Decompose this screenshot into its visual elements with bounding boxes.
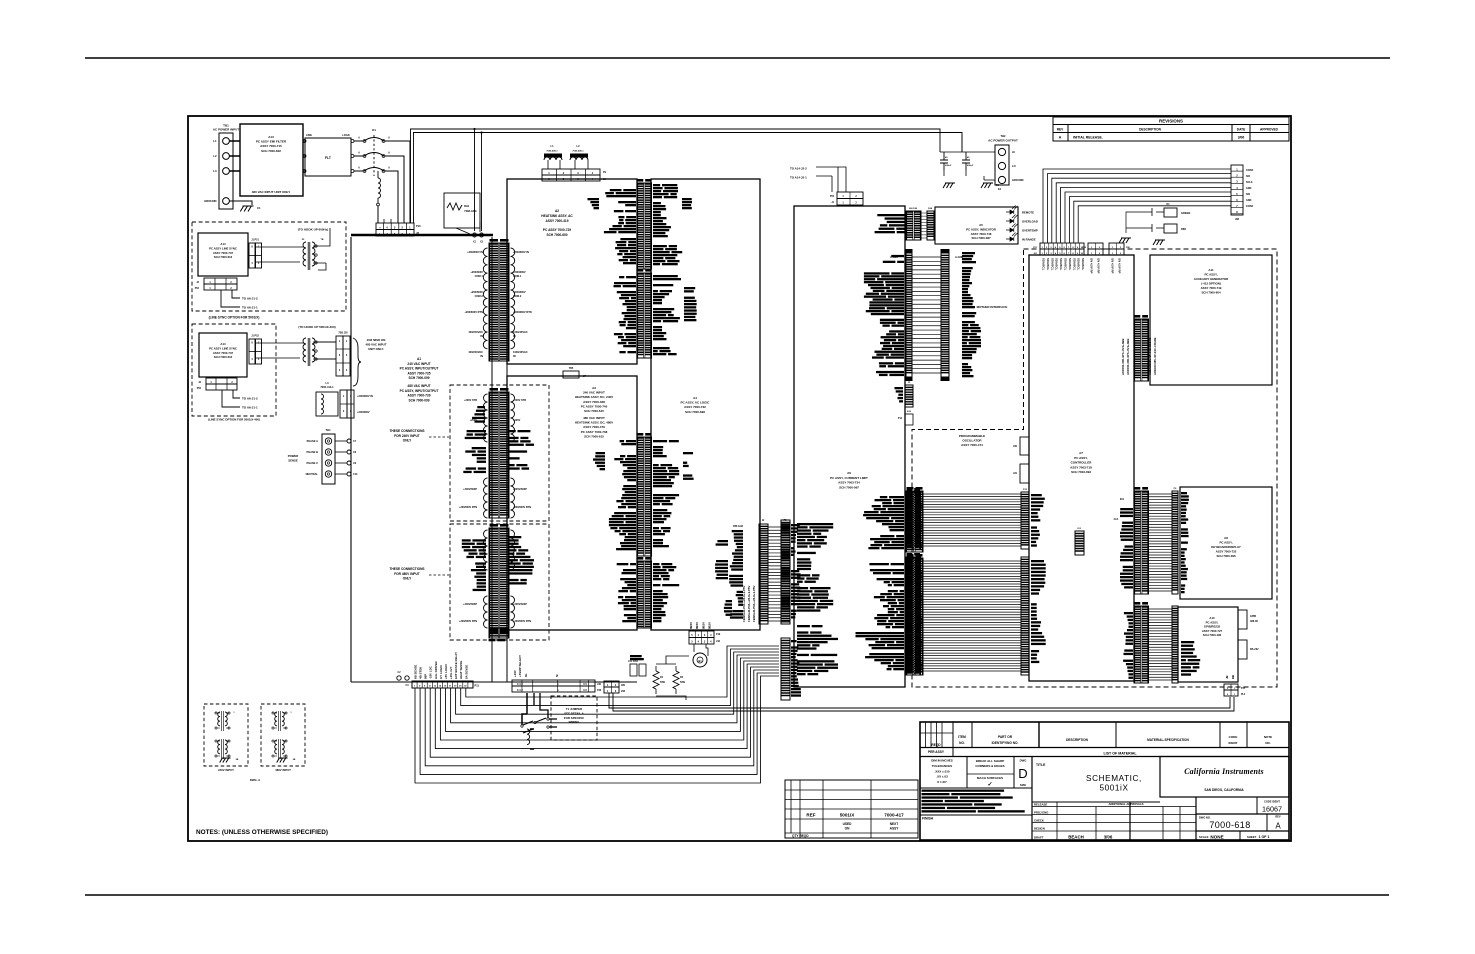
svg-text:3B: 3B — [236, 759, 239, 761]
svg-text:NEUTRAL: NEUTRAL — [306, 472, 319, 476]
A14-400 box — [199, 333, 247, 377]
svg-text:MOTHER INTERFACE: MOTHER INTERFACE — [977, 305, 1008, 309]
svg-text:TITLE: TITLE — [1036, 763, 1046, 767]
svg-text:+200/600V RTN: +200/600V RTN — [513, 506, 531, 509]
B1 fan motor — [693, 653, 707, 667]
svg-text:RL: RL — [524, 673, 528, 677]
bottom wire fan P11 to A4 edge connector — [415, 646, 779, 783]
240V blobs — [467, 430, 486, 432]
svg-text:J40: J40 — [597, 683, 602, 686]
svg-text:SDA/SCL: SDA/SCL — [1068, 258, 1072, 271]
svg-text:PC ASSY LINE SYNC: PC ASSY LINE SYNC — [209, 246, 237, 250]
A10 box — [1178, 607, 1238, 682]
svg-text:CORNERS & EDGES: CORNERS & EDGES — [975, 764, 1004, 768]
svg-text:ON: ON — [845, 827, 850, 831]
P21 connector row — [1040, 243, 1084, 249]
remote interface wire bundle — [1043, 169, 1231, 243]
long pair wires to A10 — [609, 693, 1234, 711]
svg-text:SDA/SCL: SDA/SCL — [1059, 258, 1063, 271]
svg-text:8B5V: 8B5V — [708, 622, 712, 629]
svg-text:ONLY: ONLY — [403, 439, 412, 443]
RS232 connector J20 — [1231, 165, 1243, 215]
svg-text:TB: TB — [321, 239, 324, 241]
mother interface ribbon — [912, 257, 941, 373]
A8 interface strips — [1134, 491, 1149, 594]
svg-text:NO.: NO. — [1265, 741, 1271, 745]
break corners box — [967, 757, 1014, 789]
svg-text:480 VAC INPUT: 480 VAC INPUT — [366, 343, 387, 347]
svg-text:SCALE: SCALE — [1199, 835, 1209, 839]
P24 small connector — [1109, 243, 1124, 249]
svg-text:PHASE B: PHASE B — [306, 450, 318, 454]
svg-text:+200/600V RTN: +200/600V RTN — [513, 620, 531, 623]
svg-text:NEXT: NEXT — [890, 822, 899, 826]
svg-text:+200/600V RTN: +200/600V RTN — [459, 506, 477, 509]
svg-text:SENSE: SENSE — [288, 459, 298, 463]
svg-text:(LINE SYNC OPTION FOR 5001iX-4: (LINE SYNC OPTION FOR 5001iX-400) — [208, 418, 260, 422]
detail A dashed box 480V — [261, 704, 305, 766]
svg-text:C1: C1 — [257, 206, 261, 210]
T1 switch contacts — [523, 718, 557, 733]
svg-text:SCH 7000-612: SCH 7000-612 — [214, 255, 233, 259]
svg-text:IN: IN — [513, 334, 516, 338]
svg-text:AC POWER OUTPUT: AC POWER OUTPUT — [988, 139, 1018, 143]
svg-text:RH1: RH1 — [464, 204, 470, 208]
svg-text:INITIAL RELEASE.: INITIAL RELEASE. — [1073, 136, 1103, 140]
svg-text:240V INPUT: 240V INPUT — [218, 768, 234, 772]
L3 connector — [340, 390, 347, 418]
svg-text:+200/600V: +200/600V — [470, 270, 483, 274]
A14-400 J1 connectors — [249, 339, 255, 364]
A10 bottom connector P13 — [1224, 684, 1238, 690]
A10 interface labels — [1124, 612, 1133, 614]
A7 J31 connector — [1020, 464, 1029, 483]
svg-text:SCH 7000-615: SCH 7000-615 — [584, 434, 604, 438]
svg-text:ASSY 7000-737: ASSY 7000-737 — [213, 251, 234, 255]
svg-text:DESCRIPTION: DESCRIPTION — [1066, 738, 1088, 742]
svg-text:COM-2: COM-2 — [513, 294, 522, 298]
svg-text:ON 4.5V RP: ON 4.5V RP — [1118, 258, 1122, 274]
svg-text:PC ASSY,: PC ASSY, — [1219, 541, 1232, 545]
svg-text:THESE CONNECTIONS: THESE CONNECTIONS — [389, 567, 424, 571]
TB4 power sense strip — [322, 434, 335, 484]
K1 coil L — [378, 178, 381, 198]
svg-text:0 4 2: 0 4 2 — [517, 682, 523, 686]
svg-text:600nF: 600nF — [967, 165, 974, 167]
svg-text:208: 208 — [621, 690, 626, 693]
svg-text:A1: A1 — [417, 357, 421, 361]
svg-text:ASSY 7000-737: ASSY 7000-737 — [213, 351, 234, 355]
svg-text:SCH 7003-093: SCH 7003-093 — [1071, 470, 1091, 474]
480V transformer detail — [275, 712, 277, 726]
A14 transformer T2 — [303, 242, 306, 266]
svg-text:(LINE SYNC OPTION FOR 5001iX): (LINE SYNC OPTION FOR 5001iX) — [209, 316, 260, 320]
svg-text:+200/600V: +200/600V — [357, 410, 370, 414]
top page rule — [85, 57, 1390, 59]
svg-text:8B5V: 8B5V — [689, 622, 693, 629]
svg-text:IN RANGE: IN RANGE — [1022, 238, 1036, 242]
A14 line sync dashed box 600Hz — [192, 222, 346, 311]
R2 resistor — [675, 666, 677, 694]
svg-text:SHEET: SHEET — [1247, 835, 1257, 839]
A13 to FLT wires — [303, 141, 305, 171]
A2 J1 P1 coil connector — [489, 243, 509, 361]
A4 right small labels — [717, 540, 728, 542]
dwg no box — [1196, 830, 1289, 832]
svg-text:ON 4.5V RP: ON 4.5V RP — [1097, 258, 1101, 274]
svg-text:PHASE A: PHASE A — [307, 439, 319, 443]
A6 J23 P23 connectors — [906, 491, 923, 552]
A1 right verticals — [491, 237, 493, 682]
svg-text:D88: D88 — [1181, 227, 1186, 231]
svg-text:ASSY 7000-468: ASSY 7000-468 — [583, 400, 605, 404]
svg-text:+200/600V: +200/600V — [470, 290, 483, 294]
svg-text:PL2: PL2 — [1241, 694, 1246, 696]
svg-text:+5V LOGIC: +5V LOGIC — [444, 663, 448, 679]
svg-text:+200V/600P: +200V/600P — [513, 603, 527, 606]
svg-text:SDA/SCL: SDA/SCL — [1064, 258, 1068, 271]
svg-text:7000-417: 7000-417 — [884, 813, 904, 818]
480V connections dashed box — [450, 524, 549, 640]
svg-text:P50: P50 — [830, 196, 835, 198]
svg-text:0 4 2: 0 4 2 — [517, 688, 523, 692]
svg-text:MATERIAL-SPECIFICATION: MATERIAL-SPECIFICATION — [1147, 738, 1189, 742]
P23 small connector — [1088, 243, 1103, 249]
svg-text:4B STD8: 4B STD8 — [419, 667, 423, 679]
svg-text:+200V/600P: +200V/600P — [463, 603, 477, 606]
terminal strip TB1 AC power input — [219, 133, 233, 209]
svg-text:BEACH: BEACH — [1068, 835, 1084, 840]
RH1 resistor — [444, 193, 480, 228]
svg-text:PC ASSY,: PC ASSY, — [1204, 273, 1217, 277]
A5 LEDs — [1006, 206, 1018, 215]
svg-text:A: A — [358, 137, 360, 140]
A7 J30 connector — [1020, 437, 1029, 455]
svg-text:ASSY 7000-419: ASSY 7000-419 — [546, 219, 569, 223]
svg-text:RB: RB — [1231, 675, 1235, 679]
svg-text:TO A6-J1-2: TO A6-J1-2 — [242, 297, 258, 301]
240V coil column — [489, 392, 509, 518]
option dashed region outline — [912, 249, 1277, 687]
svg-text:SDI: SDI — [1246, 193, 1250, 196]
svg-text:ASSY 7003-718: ASSY 7003-718 — [1070, 465, 1092, 469]
A7-A11 interface strips — [1134, 319, 1149, 381]
A8 interface labels — [1120, 508, 1133, 510]
svg-text:P12: P12 — [898, 418, 903, 420]
svg-text:SDA/SCL: SDA/SCL — [1042, 258, 1046, 271]
A7 left ribbon 2 — [906, 557, 921, 675]
svg-text:0 0: 0 0 — [583, 682, 587, 686]
svg-text:+200V: +200V — [513, 419, 521, 422]
svg-text:SDA/SCL: SDA/SCL — [1055, 258, 1059, 271]
svg-text:5001iX: 5001iX — [840, 813, 855, 818]
A14 box — [198, 233, 248, 276]
svg-text:3/06: 3/06 — [1238, 136, 1245, 140]
svg-text:ASSY 7000-718: ASSY 7000-718 — [971, 232, 992, 236]
svg-text:TB1: TB1 — [223, 124, 229, 128]
svg-text:CODE: CODE — [1229, 735, 1238, 739]
A6 inside bottom labels — [797, 523, 833, 525]
svg-text:HEATSINK ASSY, DC, 240V: HEATSINK ASSY, DC, 240V — [575, 395, 613, 399]
D ground syms — [1119, 238, 1131, 243]
svg-text:GROUND: GROUND — [204, 199, 216, 203]
svg-text:REMOTE: REMOTE — [1022, 211, 1034, 215]
svg-text:P52: P52 — [197, 387, 202, 390]
svg-text:FINISH: FINISH — [922, 817, 934, 821]
svg-text:KEYBOARD/DISPLAY: KEYBOARD/DISPLAY — [1211, 545, 1241, 549]
C2 C3 terminals — [397, 676, 401, 680]
svg-text:PC ASSY 7000-740: PC ASSY 7000-740 — [581, 404, 608, 408]
svg-text:ON 4.5V RP: ON 4.5V RP — [1090, 258, 1094, 274]
svg-text:A: A — [388, 167, 390, 170]
svg-text:+200/600V: +200/600V — [513, 270, 526, 274]
svg-text:L2: L2 — [213, 154, 217, 158]
ground wire and symbol C1 — [229, 201, 252, 205]
A14 J2 P52 connector — [204, 278, 237, 284]
A11 aux generator box — [1150, 255, 1272, 385]
svg-text:SCH 7000-087: SCH 7000-087 — [971, 236, 991, 240]
svg-text:SCH 7000-612: SCH 7000-612 — [214, 355, 233, 359]
svg-text:FB0/GH0-P04-+20-8+1-P5V: FB0/GH0-P04-+20-8+1-P5V — [752, 585, 756, 622]
svg-text:SCH 7000-615: SCH 7000-615 — [584, 409, 604, 413]
A5 left labels — [877, 214, 905, 216]
svg-text:A8: A8 — [1224, 536, 1228, 540]
svg-text:SIZE: SIZE — [1020, 783, 1026, 787]
D2 indicator — [1164, 224, 1177, 233]
svg-text:(-413 OPTION): (-413 OPTION) — [1201, 282, 1221, 286]
svg-text:A14: A14 — [220, 242, 226, 246]
svg-text:+15L G/Y: +15L G/Y — [449, 667, 453, 679]
drawing frame border — [188, 116, 1291, 841]
svg-text:IN: IN — [513, 354, 516, 358]
svg-text:California Instruments: California Instruments — [1184, 767, 1264, 776]
svg-text:A: A — [1275, 822, 1281, 831]
svg-text:100/240VAC: 100/240VAC — [513, 350, 528, 354]
svg-text:480 VAC INPUT: 480 VAC INPUT — [407, 384, 430, 388]
svg-text:CONTROLLER: CONTROLLER — [1071, 461, 1093, 465]
A3/A4 J4 P4 connector columns upper — [637, 437, 652, 556]
svg-text:+200/600V IN: +200/600V IN — [357, 394, 373, 398]
svg-text:GY LOGIC: GY LOGIC — [439, 664, 443, 679]
svg-text:J88: J88 — [1235, 218, 1240, 221]
A3/A4 J5 P5 connector columns lower — [637, 561, 652, 628]
A10 interface strips — [1134, 606, 1149, 683]
svg-text:7000-413-1: 7000-413-1 — [320, 385, 334, 389]
svg-text:+200V STB: +200V STB — [513, 399, 526, 402]
svg-text:PC ASSY, AC LOGIC: PC ASSY, AC LOGIC — [681, 401, 711, 405]
svg-text:UNIT ONLY.: UNIT ONLY. — [368, 347, 384, 351]
svg-text:PER ASSY: PER ASSY — [928, 750, 945, 754]
svg-text:50W: 50W — [680, 681, 686, 684]
svg-text:IDENT: IDENT — [1229, 741, 1238, 745]
svg-text:480 VAC INPUT UNIT ONLY: 480 VAC INPUT UNIT ONLY — [252, 190, 291, 194]
svg-text:+200V/600P: +200V/600P — [463, 488, 477, 491]
svg-text:MACH SURFACES: MACH SURFACES — [977, 776, 1003, 780]
svg-text:LO: LO — [1012, 164, 1016, 168]
svg-text:LINE: LINE — [306, 133, 312, 137]
svg-text:AT1 5052: AT1 5052 — [628, 660, 639, 663]
svg-text:+24V: +24V — [513, 670, 517, 677]
approvals grid — [1032, 801, 1160, 803]
svg-text:ITEM: ITEM — [958, 735, 966, 739]
mother interface right strip — [941, 253, 949, 377]
svg-text:ASSY 7000-719: ASSY 7000-719 — [1201, 286, 1222, 290]
svg-text:P52: P52 — [195, 287, 200, 290]
cap wires and grounds — [940, 135, 995, 180]
svg-text:L3: L3 — [213, 169, 217, 173]
svg-text:A11: A11 — [1208, 268, 1214, 272]
svg-text:P11: P11 — [475, 684, 480, 688]
svg-text:COM-1: COM-1 — [513, 274, 522, 278]
A7 ribbon right labels — [1031, 494, 1042, 496]
svg-text:5001iX: 5001iX — [1099, 784, 1128, 793]
R1 resistor — [655, 666, 657, 694]
svg-text:FOR 480V INPUT: FOR 480V INPUT — [394, 572, 420, 576]
svg-text:SCH 7000-096: SCH 7000-096 — [1216, 554, 1236, 558]
svg-text:TB4: TB4 — [326, 428, 331, 432]
A2 J2 P2 connector columns — [637, 183, 652, 269]
svg-text:ASSY 7000-715: ASSY 7000-715 — [260, 144, 282, 148]
svg-text:A2: A2 — [555, 209, 559, 213]
svg-text:8B5V: 8B5V — [695, 622, 699, 629]
svg-text:100NF: 100NF — [1246, 205, 1254, 208]
K1 actuator dashed line — [373, 135, 375, 176]
svg-text:+200/600V: +200/600V — [513, 290, 526, 294]
bottom page rule — [85, 894, 1389, 896]
svg-text:JB: JB — [1225, 675, 1229, 679]
svg-text:BREAK ALL SHARP: BREAK ALL SHARP — [976, 759, 1005, 763]
svg-text:TO A14-J2-2: TO A14-J2-2 — [790, 167, 807, 171]
svg-text:A: A — [388, 137, 390, 140]
svg-text:+200/600V RTN: +200/600V RTN — [459, 620, 477, 623]
svg-text:HEATSINK ASSY, AC: HEATSINK ASSY, AC — [541, 214, 573, 218]
svg-text:SDA/SCL: SDA/SCL — [1081, 258, 1085, 271]
svg-text:TOLERANCES: TOLERANCES — [932, 764, 953, 768]
T1 jumper dashed box — [551, 696, 597, 740]
svg-text:X ±.30°: X ±.30° — [937, 780, 948, 784]
svg-text:1 OF 1: 1 OF 1 — [1259, 835, 1270, 839]
mother interface left strip — [906, 253, 912, 377]
svg-text:PC ASSY,: PC ASSY, — [1074, 456, 1088, 460]
TB3 jumper box — [563, 371, 579, 378]
svg-text:PART OR: PART OR — [998, 735, 1013, 739]
svg-text:AUXILIARY GENERATOR: AUXILIARY GENERATOR — [1194, 277, 1229, 281]
svg-text:+TEMP SELECT: +TEMP SELECT — [518, 655, 522, 677]
svg-text:K01: K01 — [1120, 499, 1125, 501]
svg-text:L1: L1 — [213, 139, 217, 143]
A2 heatsink box — [507, 179, 637, 364]
svg-text:ASSY 7000-474: ASSY 7000-474 — [961, 443, 983, 447]
A1 left vertical wire — [350, 237, 352, 682]
svg-text:COM-2: COM-2 — [475, 294, 484, 298]
A7 internal J12 connector — [1075, 531, 1084, 555]
J41 P41 connector 480-208 — [604, 681, 619, 687]
A7 controller box — [1029, 255, 1134, 681]
dwg size box — [1014, 757, 1032, 789]
svg-text:OVERTEMP: OVERTEMP — [1022, 229, 1038, 233]
svg-text:THESE CONNECTIONS: THESE CONNECTIONS — [389, 429, 424, 433]
svg-text:HEAT SENSE: HEAT SENSE — [459, 661, 463, 679]
GPIB connector — [1238, 610, 1247, 629]
svg-text:PC ASSY, INPUT/OUTPUT: PC ASSY, INPUT/OUTPUT — [400, 389, 439, 393]
svg-text:ON 4.5V RP: ON 4.5V RP — [1111, 258, 1115, 274]
RS232 connector box — [1238, 640, 1247, 659]
svg-text:50W: 50W — [660, 681, 666, 684]
svg-text:REF: REF — [806, 813, 815, 818]
A5 indicator box — [935, 207, 1018, 244]
svg-text:HI: HI — [1012, 150, 1015, 154]
svg-text:FLT: FLT — [325, 156, 332, 160]
svg-text:GND: GND — [1246, 187, 1252, 190]
svg-text:USED: USED — [843, 822, 853, 826]
svg-text:A80A6C08V-4P-44C-C0O4B: A80A6C08V-4P-44C-C0O4B — [1148, 338, 1152, 375]
tolerance box — [920, 757, 967, 789]
svg-text:PC ASSY LINE SYNC: PC ASSY LINE SYNC — [209, 346, 237, 350]
svg-text:ADDITIONAL APPROVALS: ADDITIONAL APPROVALS — [1108, 802, 1143, 806]
svg-text:QTY REQD: QTY REQD — [792, 834, 809, 838]
svg-text:RELEASE: RELEASE — [1034, 802, 1047, 806]
svg-text:-15V LDC: -15V LDC — [429, 665, 433, 679]
svg-text:6B SENSE: 6B SENSE — [414, 665, 418, 679]
svg-text:AC POWER INPUT: AC POWER INPUT — [213, 128, 240, 132]
svg-text:J1 P52: J1 P52 — [251, 335, 259, 338]
svg-text:PC ASSY, CURRENT LIMIT: PC ASSY, CURRENT LIMIT — [830, 476, 868, 480]
480V coil column — [489, 528, 509, 636]
svg-text:240 VAC INPUT: 240 VAC INPUT — [583, 391, 605, 395]
svg-text:P88 GH2: P88 GH2 — [733, 525, 744, 528]
svg-text:SCH 7000-099: SCH 7000-099 — [408, 376, 429, 380]
svg-text:P40: P40 — [597, 689, 602, 692]
svg-text:PROJ ENG: PROJ ENG — [1034, 810, 1048, 814]
svg-text:TB5: TB5 — [569, 367, 574, 370]
svg-text:GROUND: GROUND — [1012, 178, 1024, 182]
A14 output wires — [221, 290, 240, 307]
A14-400 output wires — [222, 390, 240, 407]
svg-text:+200/600V IN: +200/600V IN — [467, 250, 483, 254]
code ident box — [1196, 796, 1289, 798]
svg-text:OSCILLATOR: OSCILLATOR — [962, 439, 982, 443]
240V transformer detail — [218, 712, 220, 726]
svg-text:16067: 16067 — [1262, 805, 1282, 814]
A3 heatsink box — [507, 376, 637, 630]
svg-text:ONLY: ONLY — [403, 577, 412, 581]
svg-text:CLK: CLK — [1114, 519, 1119, 521]
A13 EMI filter box — [240, 124, 303, 196]
svg-text:TO A6-J1-1: TO A6-J1-1 — [242, 406, 258, 410]
A14 line sync dashed box 400Hz — [192, 324, 276, 416]
svg-text:A14: A14 — [220, 342, 226, 346]
svg-text:OVERLOAD: OVERLOAD — [1022, 220, 1038, 224]
svg-text:+: + — [379, 225, 381, 229]
svg-text:86P: 86P — [424, 674, 428, 679]
svg-text:SIO: SIO — [1246, 175, 1250, 178]
svg-text:8B5V: 8B5V — [701, 622, 705, 629]
svg-text:240 VAC INPUT: 240 VAC INPUT — [407, 362, 430, 366]
svg-text:ASSY 7000-479: ASSY 7000-479 — [583, 425, 605, 429]
A6 J17 P17 connectors — [906, 558, 923, 675]
svg-text:A13: A13 — [268, 135, 274, 139]
svg-text:HEATSINK ASSY, DC, 480V: HEATSINK ASSY, DC, 480V — [575, 421, 613, 425]
svg-text:REV: REV — [1057, 127, 1064, 131]
svg-text:PC ASSY 7000-738: PC ASSY 7000-738 — [581, 430, 608, 434]
svg-text:RS-232: RS-232 — [1250, 648, 1259, 651]
svg-text:100/240VAC: 100/240VAC — [468, 350, 483, 354]
svg-text:SCH 7000-604: SCH 7000-604 — [1201, 291, 1221, 295]
svg-text:7000-498-1: 7000-498-1 — [546, 150, 558, 153]
svg-text:IDENTIFYING NO.: IDENTIFYING NO. — [992, 741, 1019, 745]
svg-text:A7: A7 — [1079, 451, 1083, 455]
T1 transformer coil — [527, 729, 530, 745]
